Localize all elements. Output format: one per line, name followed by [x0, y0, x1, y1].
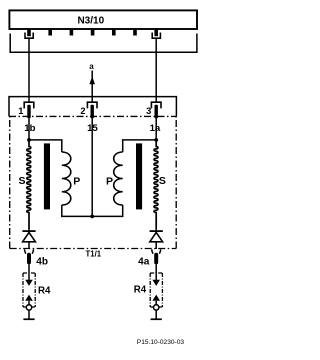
- svg-text:2: 2: [80, 106, 85, 116]
- terminal bar right: [151, 318, 162, 320]
- svg-text:P15.10-0230-03: P15.10-0230-03: [137, 339, 185, 346]
- core bar left: [44, 143, 50, 209]
- svg-text:P: P: [73, 175, 80, 187]
- svg-text:T1/1: T1/1: [85, 249, 101, 258]
- svg-text:S: S: [159, 175, 166, 187]
- wire link right top: [123, 140, 157, 152]
- pin bar 15: [91, 105, 94, 119]
- connector tab pin1: [27, 29, 31, 37]
- wire link left top: [29, 140, 62, 152]
- wire to a: [91, 71, 93, 103]
- svg-text:R4: R4: [38, 285, 51, 296]
- svg-text:a: a: [89, 62, 94, 71]
- connector strip: [10, 34, 197, 53]
- diode left cathode bar: [22, 230, 35, 232]
- spark gap box R4 left: [23, 273, 35, 307]
- connector tab 2: [48, 29, 52, 36]
- svg-text:1: 1: [18, 106, 23, 116]
- terminal circle right: [154, 305, 159, 310]
- spark gap box R4 right: [150, 273, 162, 307]
- pin socket bracket 1: [24, 102, 34, 108]
- node junction right: [154, 138, 158, 142]
- control unit N3/10 box: [9, 10, 197, 29]
- spark gap arrow up left: [25, 295, 33, 301]
- core bar right: [136, 143, 142, 209]
- connector tab 5: [112, 29, 116, 36]
- wire right column: [155, 38, 157, 102]
- wire link left bottom: [62, 205, 92, 216]
- wire circle to bar left: [28, 311, 30, 320]
- terminal circle left: [26, 305, 31, 310]
- svg-text:P: P: [106, 175, 113, 187]
- secondary winding S right: [154, 140, 158, 230]
- pin socket bracket 2: [87, 102, 97, 108]
- wire S left to diode: [28, 230, 30, 231]
- connector tab pin3: [154, 29, 158, 37]
- svg-text:3: 3: [146, 106, 151, 116]
- socket marks 4b: [25, 249, 34, 253]
- pin bar 1a: [155, 105, 158, 119]
- wire left column: [28, 38, 30, 102]
- pin socket bracket 3: [151, 102, 161, 108]
- dash-dot top edge of T1/1: [9, 115, 176, 117]
- spark gap arrow down right: [152, 280, 160, 286]
- wire 4a to R4: [155, 264, 157, 280]
- wire diode left to pin 4b: [28, 242, 30, 249]
- pin bar 4a: [154, 253, 158, 265]
- connector block box: [9, 97, 176, 117]
- svg-text:1b: 1b: [24, 123, 35, 134]
- wire diode right to pin 4a: [155, 242, 157, 249]
- primary winding P left: [62, 152, 71, 205]
- wire pin3 to coil: [155, 118, 157, 140]
- secondary winding S left: [27, 140, 31, 230]
- spark gap arrow up right: [152, 295, 160, 301]
- primary winding P right: [114, 152, 123, 205]
- diode right cathode bar: [150, 230, 163, 232]
- connector tab 3: [70, 29, 74, 36]
- svg-text:1a: 1a: [150, 123, 161, 134]
- wire circle to bar right: [155, 311, 157, 320]
- diode right triangle: [150, 232, 163, 241]
- terminal bar left: [23, 318, 34, 320]
- connector tab 4: [91, 29, 95, 36]
- wire S right to diode: [155, 230, 157, 231]
- pin bar 4b: [27, 253, 31, 265]
- svg-text:R4: R4: [134, 284, 147, 295]
- dash-dot box T1/1 sides and bottom: [9, 116, 11, 248]
- pin bar 1b: [27, 105, 30, 119]
- wire link right bottom: [92, 205, 123, 216]
- socket cup left: [25, 33, 33, 39]
- wire pin1 to coil: [28, 118, 30, 140]
- node junction left: [27, 138, 31, 142]
- connector tab 6: [133, 29, 137, 36]
- wire 4b to R4: [28, 264, 30, 280]
- wire pin15 center: [91, 118, 93, 216]
- svg-text:S: S: [18, 175, 25, 187]
- diode left triangle: [23, 232, 36, 241]
- socket marks 4a: [152, 249, 161, 253]
- wire gap to circle right: [155, 301, 157, 305]
- svg-text:4a: 4a: [138, 257, 150, 268]
- arrowhead up on wire a: [89, 76, 95, 84]
- socket cup right: [152, 33, 160, 39]
- svg-text:4b: 4b: [36, 257, 48, 268]
- node junction center: [90, 215, 94, 219]
- svg-text:N3/10: N3/10: [77, 15, 104, 26]
- wire gap to circle left: [28, 301, 30, 305]
- spark gap arrow down left: [25, 280, 33, 286]
